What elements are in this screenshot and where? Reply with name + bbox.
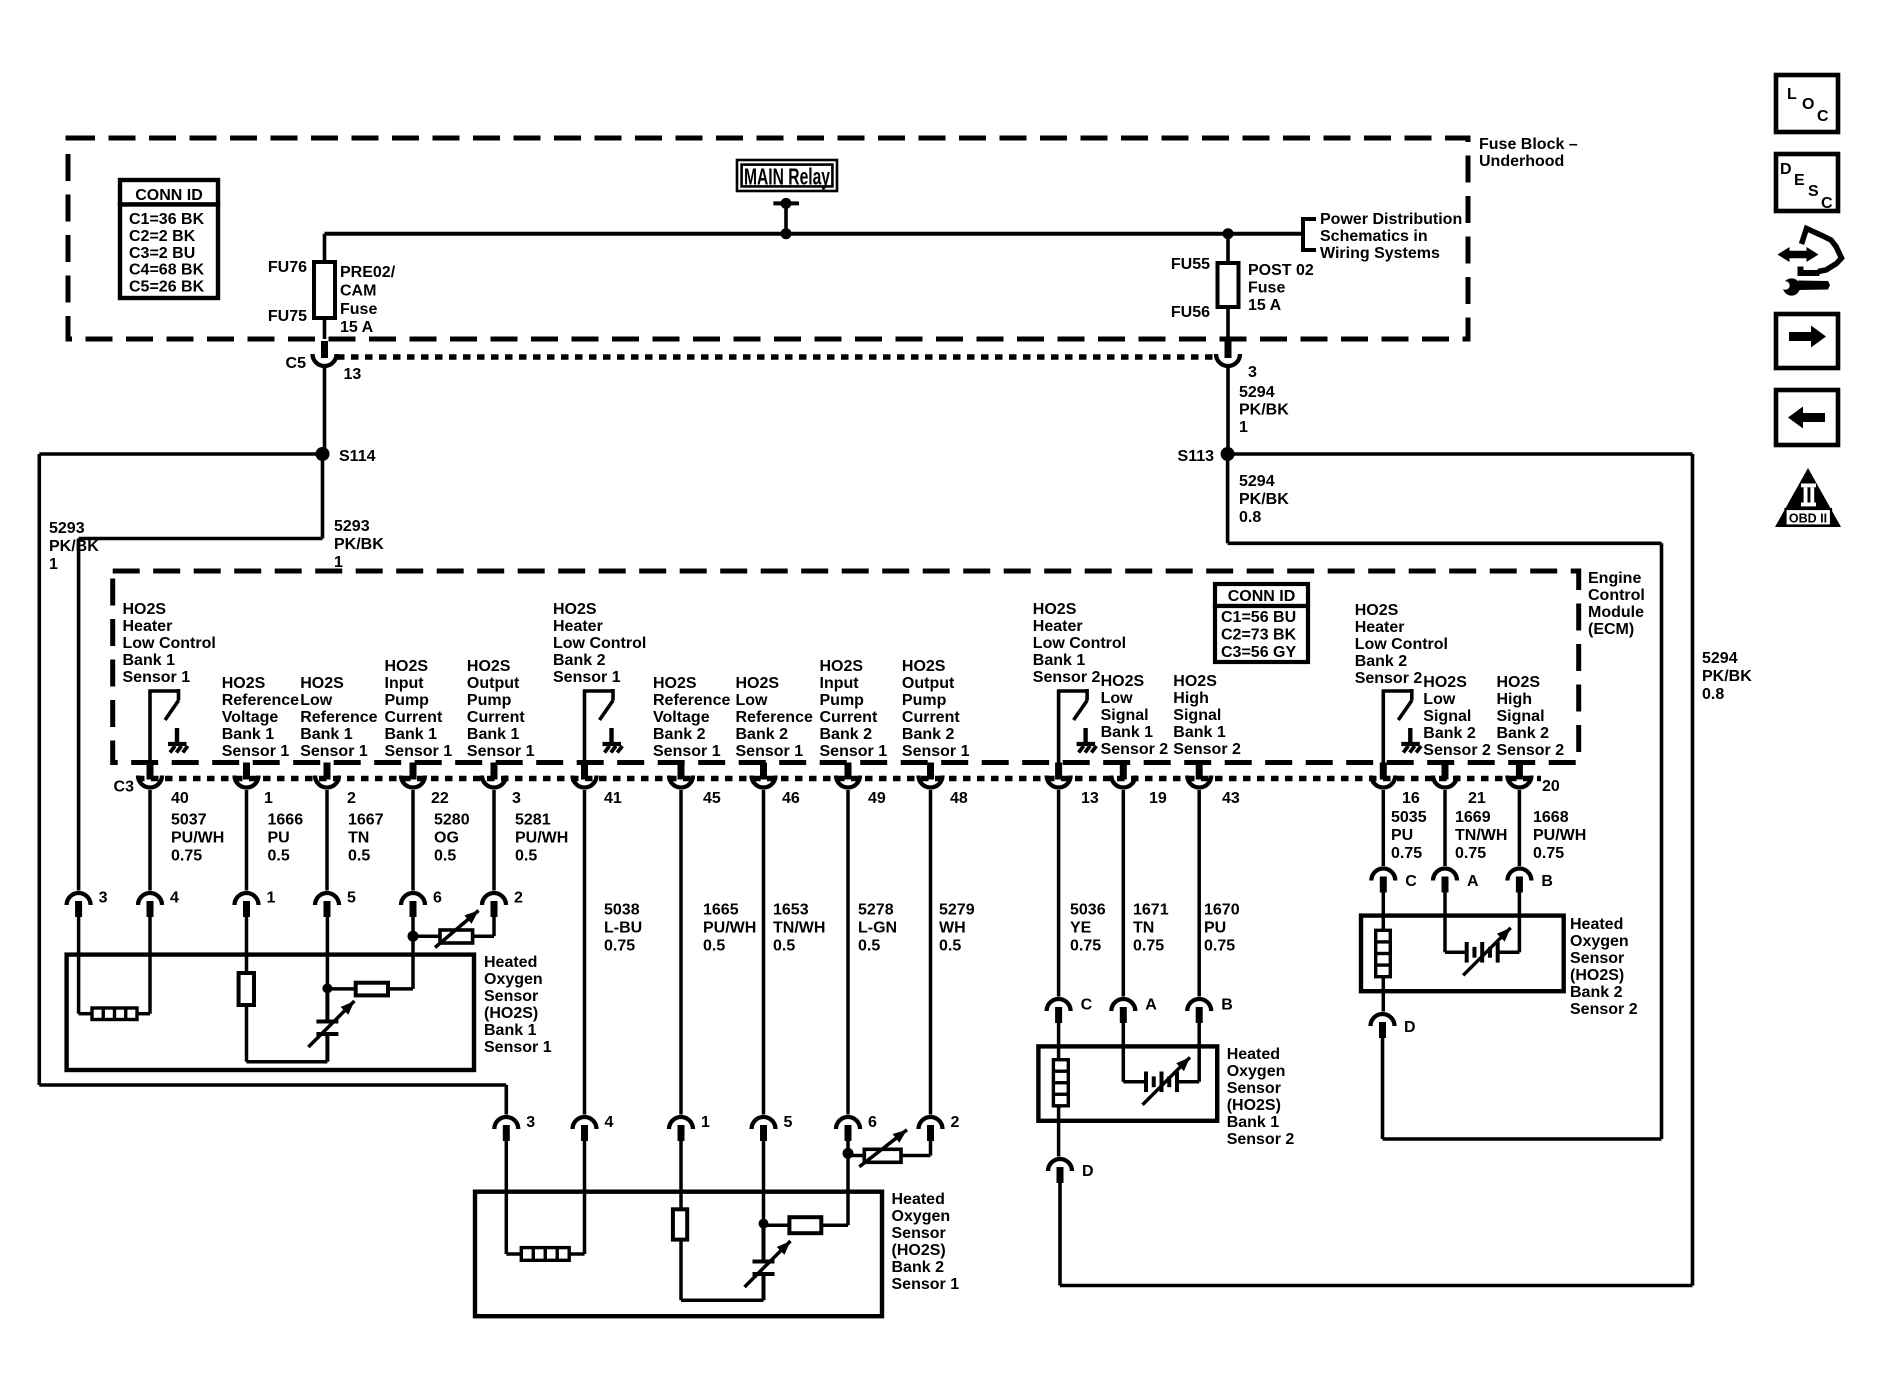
svg-text:PU/WH: PU/WH: [1533, 827, 1586, 844]
svg-text:HO2S: HO2S: [736, 675, 780, 692]
svg-text:Sensor 2: Sensor 2: [1227, 1131, 1295, 1148]
svg-text:Sensor 1: Sensor 1: [484, 1039, 552, 1056]
svg-text:Sensor 1: Sensor 1: [467, 743, 535, 760]
svg-text:Fuse: Fuse: [340, 301, 377, 318]
svg-text:Sensor 2: Sensor 2: [1033, 669, 1101, 686]
svg-text:(HO2S): (HO2S): [1570, 967, 1624, 984]
svg-text:(HO2S): (HO2S): [484, 1005, 538, 1022]
svg-text:5294: 5294: [1239, 384, 1275, 401]
svg-text:Output: Output: [467, 675, 520, 692]
svg-text:0.5: 0.5: [268, 848, 290, 865]
svg-text:HO2S: HO2S: [1497, 674, 1541, 691]
svg-text:1653: 1653: [773, 902, 809, 919]
svg-text:1666: 1666: [268, 812, 304, 829]
svg-text:0.5: 0.5: [773, 938, 795, 955]
svg-text:TN: TN: [348, 830, 369, 847]
svg-text:FU56: FU56: [1171, 304, 1210, 321]
svg-text:O: O: [1802, 96, 1814, 113]
svg-text:HO2S: HO2S: [1033, 601, 1077, 618]
svg-text:Heater: Heater: [553, 618, 603, 635]
svg-text:C: C: [1081, 997, 1093, 1014]
svg-text:Fuse: Fuse: [1248, 280, 1285, 297]
svg-text:5293: 5293: [49, 520, 85, 537]
svg-text:1667: 1667: [348, 812, 384, 829]
svg-text:Heated: Heated: [1227, 1046, 1280, 1063]
svg-text:3: 3: [512, 790, 521, 807]
svg-text:Low: Low: [300, 692, 333, 709]
svg-text:Sensor 1: Sensor 1: [222, 743, 290, 760]
svg-text:Pump: Pump: [467, 692, 512, 709]
svg-text:5278: 5278: [858, 902, 894, 919]
svg-text:Sensor 1: Sensor 1: [892, 1276, 960, 1293]
svg-text:Low Control: Low Control: [123, 635, 216, 652]
svg-text:Bank 1: Bank 1: [467, 726, 520, 743]
svg-text:0.75: 0.75: [1533, 845, 1564, 862]
svg-text:5: 5: [347, 890, 356, 907]
svg-text:OBD II: OBD II: [1789, 512, 1827, 526]
svg-text:PRE02/: PRE02/: [340, 264, 396, 281]
svg-text:2: 2: [347, 790, 356, 807]
svg-text:High: High: [1173, 690, 1209, 707]
svg-text:15 A: 15 A: [1248, 297, 1282, 314]
svg-text:FU55: FU55: [1171, 256, 1210, 273]
svg-text:PU: PU: [268, 830, 290, 847]
svg-text:Signal: Signal: [1497, 708, 1545, 725]
svg-text:5038: 5038: [604, 902, 640, 919]
svg-text:C1=56 BU: C1=56 BU: [1221, 609, 1296, 626]
svg-text:CONN ID: CONN ID: [135, 187, 203, 204]
svg-text:HO2S: HO2S: [1423, 674, 1467, 691]
svg-text:2: 2: [951, 1114, 960, 1131]
svg-text:Sensor 2: Sensor 2: [1173, 741, 1241, 758]
svg-text:YE: YE: [1070, 920, 1092, 937]
svg-text:Sensor 1: Sensor 1: [653, 743, 721, 760]
svg-text:C2=73 BK: C2=73 BK: [1221, 627, 1297, 644]
svg-text:Current: Current: [467, 709, 525, 726]
svg-text:Heated: Heated: [892, 1191, 945, 1208]
svg-text:0.75: 0.75: [1133, 938, 1164, 955]
svg-text:Bank 2: Bank 2: [892, 1259, 945, 1276]
svg-text:Oxygen: Oxygen: [1570, 933, 1629, 950]
svg-text:FU76: FU76: [268, 259, 307, 276]
svg-text:3: 3: [1248, 364, 1257, 381]
svg-text:Power Distribution: Power Distribution: [1320, 211, 1462, 228]
svg-text:HO2S: HO2S: [902, 658, 946, 675]
svg-text:48: 48: [950, 790, 968, 807]
svg-text:Reference: Reference: [222, 692, 299, 709]
svg-text:Bank 2: Bank 2: [902, 726, 955, 743]
svg-text:1668: 1668: [1533, 809, 1569, 826]
svg-text:Low Control: Low Control: [1355, 636, 1448, 653]
svg-text:Current: Current: [902, 709, 960, 726]
svg-text:Bank 2: Bank 2: [1570, 984, 1623, 1001]
svg-text:19: 19: [1149, 790, 1167, 807]
svg-text:Sensor: Sensor: [1570, 950, 1624, 967]
svg-text:Sensor: Sensor: [484, 988, 538, 1005]
svg-text:B: B: [1221, 997, 1233, 1014]
svg-text:Schematics in: Schematics in: [1320, 228, 1428, 245]
svg-text:PU/WH: PU/WH: [515, 830, 568, 847]
svg-text:Low: Low: [736, 692, 769, 709]
svg-text:Heater: Heater: [1033, 618, 1083, 635]
svg-text:Engine: Engine: [1588, 570, 1641, 587]
svg-text:0.5: 0.5: [434, 848, 456, 865]
svg-text:A: A: [1145, 997, 1157, 1014]
svg-text:Low: Low: [1423, 691, 1456, 708]
svg-text:Heated: Heated: [1570, 916, 1623, 933]
svg-text:1: 1: [1239, 419, 1248, 436]
svg-text:TN/WH: TN/WH: [773, 920, 825, 937]
svg-text:Wiring Systems: Wiring Systems: [1320, 245, 1440, 262]
svg-text:OG: OG: [434, 830, 459, 847]
svg-text:Oxygen: Oxygen: [1227, 1063, 1286, 1080]
svg-text:CAM: CAM: [340, 282, 376, 299]
svg-text:TN: TN: [1133, 920, 1154, 937]
svg-text:(HO2S): (HO2S): [892, 1242, 946, 1259]
svg-text:1: 1: [49, 556, 58, 573]
svg-text:40: 40: [171, 790, 189, 807]
svg-text:Bank 2: Bank 2: [1497, 725, 1550, 742]
svg-text:HO2S: HO2S: [123, 601, 167, 618]
svg-text:1: 1: [267, 890, 276, 907]
svg-text:Sensor 1: Sensor 1: [300, 743, 368, 760]
svg-text:HO2S: HO2S: [653, 675, 697, 692]
svg-text:C: C: [1821, 195, 1833, 212]
svg-text:1670: 1670: [1204, 902, 1240, 919]
svg-text:Reference: Reference: [653, 692, 730, 709]
svg-text:Pump: Pump: [820, 692, 865, 709]
svg-text:HO2S: HO2S: [553, 601, 597, 618]
svg-text:B: B: [1541, 873, 1553, 890]
svg-text:0.75: 0.75: [1070, 938, 1101, 955]
svg-text:0.8: 0.8: [1239, 509, 1261, 526]
svg-text:C: C: [1817, 108, 1829, 125]
svg-text:S: S: [1808, 183, 1819, 200]
svg-text:C1=36 BK: C1=36 BK: [129, 211, 205, 228]
svg-text:Sensor 1: Sensor 1: [123, 669, 191, 686]
svg-text:Voltage: Voltage: [222, 709, 279, 726]
svg-text:FU75: FU75: [268, 308, 307, 325]
svg-text:PK/BK: PK/BK: [1239, 491, 1289, 508]
svg-text:POST 02: POST 02: [1248, 262, 1314, 279]
svg-text:Reference: Reference: [736, 709, 813, 726]
svg-text:Sensor 2: Sensor 2: [1101, 741, 1169, 758]
svg-text:Heater: Heater: [1355, 619, 1405, 636]
svg-text:D: D: [1404, 1019, 1416, 1036]
svg-text:Sensor 2: Sensor 2: [1497, 742, 1565, 759]
svg-text:Bank 2: Bank 2: [1423, 725, 1476, 742]
svg-text:5280: 5280: [434, 812, 470, 829]
svg-text:3: 3: [99, 890, 108, 907]
svg-text:0.5: 0.5: [703, 938, 725, 955]
svg-text:HO2S: HO2S: [1101, 673, 1145, 690]
svg-text:C2=2 BK: C2=2 BK: [129, 228, 196, 245]
svg-text:C5=26 BK: C5=26 BK: [129, 279, 205, 296]
svg-text:0.5: 0.5: [515, 848, 537, 865]
svg-text:PK/BK: PK/BK: [334, 536, 384, 553]
svg-text:2: 2: [514, 890, 523, 907]
svg-text:HO2S: HO2S: [1173, 673, 1217, 690]
svg-text:3: 3: [526, 1114, 535, 1131]
svg-text:E: E: [1794, 172, 1805, 189]
svg-text:Sensor 2: Sensor 2: [1355, 670, 1423, 687]
svg-text:Pump: Pump: [385, 692, 430, 709]
svg-text:D: D: [1082, 1163, 1094, 1180]
svg-text:41: 41: [604, 790, 622, 807]
svg-text:Bank 2: Bank 2: [1355, 653, 1408, 670]
svg-text:Bank 1: Bank 1: [123, 652, 176, 669]
svg-text:1669: 1669: [1455, 809, 1491, 826]
svg-text:Bank 2: Bank 2: [736, 726, 789, 743]
svg-text:Bank 1: Bank 1: [1227, 1114, 1280, 1131]
svg-text:L-GN: L-GN: [858, 920, 897, 937]
svg-text:5037: 5037: [171, 812, 207, 829]
svg-text:0.75: 0.75: [1204, 938, 1235, 955]
svg-text:4: 4: [170, 890, 179, 907]
svg-text:C5: C5: [286, 355, 307, 372]
svg-text:PK/BK: PK/BK: [49, 538, 99, 555]
svg-text:0.75: 0.75: [171, 848, 202, 865]
svg-text:Oxygen: Oxygen: [892, 1208, 951, 1225]
svg-text:Heated: Heated: [484, 954, 537, 971]
svg-text:Input: Input: [385, 675, 425, 692]
svg-text:5: 5: [784, 1114, 793, 1131]
svg-text:PK/BK: PK/BK: [1702, 668, 1752, 685]
svg-text:HO2S: HO2S: [820, 658, 864, 675]
svg-text:HO2S: HO2S: [467, 658, 511, 675]
svg-text:A: A: [1467, 873, 1479, 890]
svg-text:HO2S: HO2S: [1355, 602, 1399, 619]
svg-text:1: 1: [701, 1114, 710, 1131]
svg-text:Bank 1: Bank 1: [1101, 724, 1154, 741]
svg-text:20: 20: [1542, 778, 1560, 795]
svg-text:21: 21: [1468, 790, 1486, 807]
svg-text:Signal: Signal: [1423, 708, 1471, 725]
svg-text:S113: S113: [1178, 448, 1215, 465]
svg-text:C: C: [1405, 873, 1417, 890]
svg-text:Pump: Pump: [902, 692, 947, 709]
svg-text:CONN ID: CONN ID: [1228, 588, 1296, 605]
svg-text:43: 43: [1222, 790, 1240, 807]
svg-text:Voltage: Voltage: [653, 709, 710, 726]
svg-text:Low Control: Low Control: [1033, 635, 1126, 652]
svg-text:HO2S: HO2S: [385, 658, 429, 675]
svg-text:Low Control: Low Control: [553, 635, 646, 652]
svg-text:Underhood: Underhood: [1479, 153, 1564, 170]
svg-text:Current: Current: [385, 709, 443, 726]
svg-text:16: 16: [1402, 790, 1420, 807]
svg-text:L: L: [1787, 86, 1797, 103]
svg-text:WH: WH: [939, 920, 966, 937]
svg-text:HO2S: HO2S: [222, 675, 266, 692]
svg-text:MAIN Relay: MAIN Relay: [744, 164, 830, 190]
svg-text:0.75: 0.75: [604, 938, 635, 955]
svg-text:1665: 1665: [703, 902, 739, 919]
svg-text:6: 6: [433, 890, 442, 907]
svg-text:PU: PU: [1391, 827, 1413, 844]
svg-text:5294: 5294: [1239, 473, 1275, 490]
svg-text:Sensor: Sensor: [1227, 1080, 1281, 1097]
svg-text:(HO2S): (HO2S): [1227, 1097, 1281, 1114]
svg-text:Bank 1: Bank 1: [385, 726, 438, 743]
svg-text:PU/WH: PU/WH: [703, 920, 756, 937]
svg-text:Bank 1: Bank 1: [222, 726, 275, 743]
svg-text:TN/WH: TN/WH: [1455, 827, 1507, 844]
svg-text:S114: S114: [339, 448, 376, 465]
svg-text:Heater: Heater: [123, 618, 173, 635]
svg-text:Bank 2: Bank 2: [653, 726, 706, 743]
svg-text:22: 22: [431, 790, 449, 807]
svg-text:Signal: Signal: [1101, 707, 1149, 724]
svg-text:High: High: [1497, 691, 1533, 708]
svg-text:C4=68 BK: C4=68 BK: [129, 262, 205, 279]
svg-text:Sensor 1: Sensor 1: [820, 743, 888, 760]
svg-text:46: 46: [782, 790, 800, 807]
svg-text:15 A: 15 A: [340, 319, 374, 336]
svg-text:C3=2 BU: C3=2 BU: [129, 245, 195, 262]
svg-text:0.75: 0.75: [1391, 845, 1422, 862]
svg-text:0.5: 0.5: [348, 848, 370, 865]
svg-text:1: 1: [264, 790, 273, 807]
svg-text:5293: 5293: [334, 518, 370, 535]
svg-text:HO2S: HO2S: [300, 675, 344, 692]
svg-text:Fuse Block –: Fuse Block –: [1479, 136, 1578, 153]
svg-text:Bank 1: Bank 1: [300, 726, 353, 743]
svg-text:Sensor: Sensor: [892, 1225, 946, 1242]
svg-text:0.8: 0.8: [1702, 686, 1724, 703]
svg-text:5036: 5036: [1070, 902, 1106, 919]
svg-text:Bank 1: Bank 1: [1033, 652, 1086, 669]
svg-text:C3=56 GY: C3=56 GY: [1221, 644, 1296, 661]
svg-text:4: 4: [605, 1114, 614, 1131]
svg-text:13: 13: [344, 366, 362, 383]
svg-text:PU/WH: PU/WH: [171, 830, 224, 847]
svg-text:PK/BK: PK/BK: [1239, 402, 1289, 419]
svg-text:6: 6: [868, 1114, 877, 1131]
svg-text:Signal: Signal: [1173, 707, 1221, 724]
svg-text:0.5: 0.5: [939, 938, 961, 955]
svg-text:Input: Input: [820, 675, 860, 692]
svg-text:1: 1: [334, 554, 343, 571]
svg-text:13: 13: [1081, 790, 1099, 807]
svg-text:Sensor 1: Sensor 1: [553, 669, 621, 686]
svg-text:Bank 1: Bank 1: [484, 1022, 537, 1039]
svg-text:Oxygen: Oxygen: [484, 971, 543, 988]
svg-text:C3: C3: [114, 779, 135, 796]
svg-text:Control: Control: [1588, 587, 1645, 604]
svg-text:1671: 1671: [1133, 902, 1169, 919]
svg-text:Sensor 2: Sensor 2: [1570, 1001, 1638, 1018]
svg-text:Bank 2: Bank 2: [553, 652, 606, 669]
svg-text:Sensor 1: Sensor 1: [385, 743, 453, 760]
svg-text:Reference: Reference: [300, 709, 377, 726]
svg-text:5294: 5294: [1702, 650, 1738, 667]
svg-text:(ECM): (ECM): [1588, 621, 1634, 638]
svg-text:Sensor 1: Sensor 1: [736, 743, 804, 760]
svg-text:45: 45: [703, 790, 721, 807]
svg-text:Current: Current: [820, 709, 878, 726]
svg-text:D: D: [1780, 161, 1792, 178]
svg-text:Sensor 1: Sensor 1: [902, 743, 970, 760]
svg-text:Low: Low: [1101, 690, 1134, 707]
svg-text:5281: 5281: [515, 812, 551, 829]
svg-text:49: 49: [868, 790, 886, 807]
svg-text:Sensor 2: Sensor 2: [1423, 742, 1491, 759]
svg-text:Bank 2: Bank 2: [820, 726, 873, 743]
svg-text:PU: PU: [1204, 920, 1226, 937]
svg-text:L-BU: L-BU: [604, 920, 642, 937]
svg-text:5279: 5279: [939, 902, 975, 919]
svg-text:Bank 1: Bank 1: [1173, 724, 1226, 741]
svg-text:5035: 5035: [1391, 809, 1427, 826]
svg-text:0.75: 0.75: [1455, 845, 1486, 862]
svg-text:0.5: 0.5: [858, 938, 880, 955]
svg-text:Module: Module: [1588, 604, 1644, 621]
svg-text:Output: Output: [902, 675, 955, 692]
